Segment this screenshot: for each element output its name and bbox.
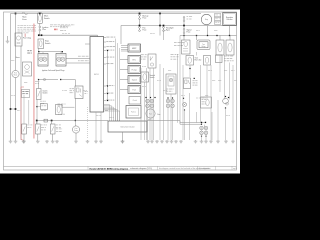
svg-text:Honda CB750 K7 BRKE wiring dia: Honda CB750 K7 BRKE wiring diagram [90, 167, 129, 170]
svg-text:Plus: Plus [42, 29, 46, 31]
svg-text:Switch: Switch [150, 76, 155, 79]
svg-text:Switch: Switch [43, 92, 48, 95]
svg-text:No adaptation: No adaptation [199, 167, 210, 170]
svg-text:Switch: Switch [45, 42, 50, 45]
svg-text:Horn Sw: Horn Sw [195, 59, 202, 62]
svg-text:schematic diagram (V2.1): schematic diagram (V2.1) [130, 167, 152, 170]
svg-text:ep.III: ep.III [233, 168, 237, 170]
svg-text:Horn: Horn [16, 57, 20, 59]
svg-text:ERL: ERL [133, 59, 136, 61]
svg-text:Fuse: Fuse [187, 32, 191, 34]
svg-text:Relay: Relay [202, 46, 206, 48]
svg-text:Switch: Switch [44, 17, 50, 20]
svg-text:Ignition Coils and Spark Plugs: Ignition Coils and Spark Plugs [42, 69, 65, 72]
svg-text:Fan: Fan [149, 113, 152, 115]
svg-text:Speed: Speed [132, 79, 137, 81]
svg-text:ECU: ECU [94, 74, 99, 76]
svg-text:Pickup: Pickup [132, 69, 137, 71]
svg-text:Fuse: Fuse [143, 18, 147, 20]
svg-text:Fuse: Fuse [22, 19, 26, 21]
svg-text:Fuel Lv: Fuel Lv [131, 112, 136, 114]
svg-text:Fuel relay: Fuel relay [23, 37, 31, 40]
svg-text:Instrument Cluster: Instrument Cluster [120, 125, 135, 128]
svg-text:Fuse: Fuse [143, 30, 147, 32]
svg-text:Pump: Pump [74, 130, 78, 132]
svg-text:Grip: Grip [205, 18, 208, 21]
